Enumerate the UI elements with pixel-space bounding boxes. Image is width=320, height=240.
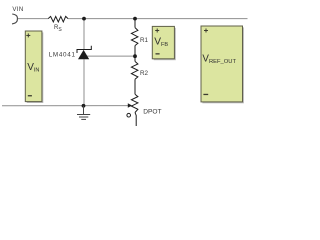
svg-text:LM4041: LM4041 <box>49 51 76 58</box>
svg-text:DPOT: DPOT <box>143 109 161 116</box>
svg-text:R2: R2 <box>140 70 149 77</box>
svg-text:VIN: VIN <box>12 6 23 13</box>
svg-text:R1: R1 <box>140 37 149 44</box>
